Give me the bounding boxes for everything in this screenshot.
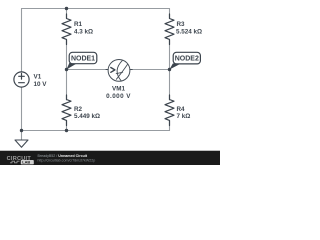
resistor R2 [62,95,71,126]
ground [15,131,28,148]
resistor R1 [62,14,71,45]
wire: R1 bottom to NODE1 junction [66,40,68,70]
resistor R3 [165,14,174,45]
junction dot NODE2 [168,68,171,71]
wire: voltmeter VM1 right terminal to NODE2 [130,69,170,71]
wire: R3 bottom to NODE2 junction [169,40,171,70]
junction dot bottom rail / R2 [65,129,68,132]
svg-text:0.000 V: 0.000 V [106,93,131,100]
svg-text:R4: R4 [177,106,186,113]
voltmeter VM1 [106,60,132,82]
wire: R3 top lead from top rail [169,9,171,19]
wire: V1 bottom to bottom rail [21,87,23,131]
svg-text:V1: V1 [34,74,42,81]
wire: R1 top lead from top rail [66,9,68,19]
svg-text:R3: R3 [177,21,186,28]
node NODE1 flag [67,52,97,69]
svg-text:R1: R1 [74,21,83,28]
junction dot bottom rail / V1 [20,129,23,132]
svg-text:10 V: 10 V [34,81,48,88]
footer bar [0,150,220,151]
CircuitLab logo waveform [10,161,20,163]
junction dot top rail / R1 [65,7,68,10]
voltmeter VM1 polarity mark [111,68,115,73]
svg-text:7 kΩ: 7 kΩ [177,113,191,120]
wire: NODE1 junction down to R2 top [66,70,68,101]
wire: NODE1 to voltmeter VM1 left terminal [67,69,109,71]
svg-text:R2: R2 [74,106,83,113]
svg-text:5.524 kΩ: 5.524 kΩ [176,28,202,35]
resistor R4 [165,95,174,126]
node NODE2 flag [170,52,201,69]
wire: left vertical from top-left corner down to V1 top [21,9,23,73]
svg-text:BreadyB52 / Unnamed Circuit: BreadyB52 / Unnamed Circuit [38,154,88,158]
wire: NODE2 junction down to R4 top [169,70,171,101]
svg-text:http://circuitlab.com/c/78mzt7: http://circuitlab.com/c/78mzt7kW22p [38,158,96,162]
wire: R2 bottom to bottom rail [66,121,68,131]
svg-text:5.449 kΩ: 5.449 kΩ [74,113,100,120]
svg-text:VM1: VM1 [112,86,125,93]
svg-text:NODE1: NODE1 [71,56,95,63]
junction dot NODE1 [65,68,68,71]
CircuitLab logo LAB box [21,160,34,164]
wire: top horizontal rail [22,8,170,10]
svg-text:4.3 kΩ: 4.3 kΩ [74,28,93,35]
svg-text:NODE2: NODE2 [175,56,199,63]
wire: bottom horizontal rail [22,130,170,132]
voltage source V1 [14,72,29,87]
wire: R4 bottom to bottom rail [169,121,171,131]
svg-text:LAB: LAB [22,160,30,165]
